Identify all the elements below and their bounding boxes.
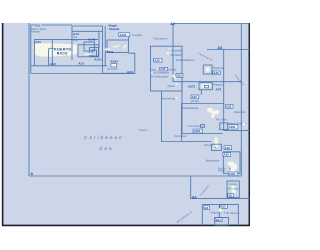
svg-text:St Lucia: St Lucia [228, 186, 239, 190]
St Lucia island [231, 185, 236, 194]
Vieques box [78, 45, 99, 57]
Guadeloupe island [207, 108, 220, 119]
Dominica island [215, 137, 219, 148]
svg-text:A23: A23 [127, 70, 133, 74]
chart box A12 left edge [48, 48, 50, 66]
B31 inner box [215, 218, 229, 226]
sea area [3, 23, 251, 225]
svg-text:Caribbean: Caribbean [84, 135, 124, 140]
boxed label A301 [228, 172, 238, 176]
A141 box [84, 42, 95, 51]
small box cluster (Culebra) [90, 48, 99, 57]
svg-text:A12: A12 [50, 62, 56, 66]
svg-text:A141: A141 [88, 38, 96, 42]
svg-text:A3: A3 [218, 46, 223, 50]
svg-text:St Croix: St Croix [107, 67, 118, 71]
chart box A24 [151, 46, 183, 91]
svg-text:A301: A301 [229, 172, 236, 176]
St Barthelemy island [177, 58, 178, 59]
boxed label A232 [119, 33, 130, 37]
Guadeloupe box A28 [182, 104, 224, 141]
leader to A25 inset [200, 90, 202, 95]
svg-text:St Martin: St Martin [171, 53, 183, 57]
Antigua box A27 [199, 83, 213, 90]
svg-text:A232: A232 [120, 33, 127, 37]
map left border [2, 23, 4, 225]
boxed label A281 [228, 125, 238, 129]
svg-text:A28: A28 [226, 105, 232, 109]
Montserrat island [175, 97, 178, 100]
Anguilla island [168, 48, 172, 50]
svg-text:Désirade: Désirade [234, 110, 246, 114]
boxed label A24 [154, 58, 162, 62]
map bottom border [2, 224, 250, 226]
Marie Galante island [242, 123, 245, 126]
svg-text:Nevis: Nevis [168, 84, 176, 88]
svg-text:A271: A271 [188, 84, 196, 88]
svg-text:France: France [218, 170, 226, 173]
boxed label B30 [220, 205, 227, 209]
svg-text:Anguilla: Anguilla [170, 49, 182, 53]
svg-text:A27: A27 [216, 88, 222, 92]
svg-text:A: A [31, 172, 34, 176]
page background [0, 0, 250, 250]
boxed label A26 [213, 71, 220, 75]
Virgin Gorda island [122, 44, 127, 49]
St Martin island [166, 52, 169, 55]
boxed label A28 [225, 104, 233, 108]
boxed label A261 [193, 129, 202, 133]
chart box A14 [72, 26, 103, 60]
Barbuda island [206, 67, 211, 72]
boxed label B3 [204, 206, 210, 210]
Virgin Islands box A23 [103, 26, 135, 73]
svg-text:Dominica: Dominica [174, 134, 186, 138]
svg-text:B3: B3 [205, 206, 209, 210]
Tortola island [112, 45, 121, 48]
svg-text:(inset): (inset) [191, 99, 199, 103]
Aves I dot [138, 129, 139, 130]
A1 lower bottom line [31, 73, 135, 75]
svg-text:Kingstown: Kingstown [210, 211, 222, 214]
St Vincent island [219, 208, 223, 212]
boxed label B31 [215, 218, 222, 222]
svg-text:Anegada: Anegada [132, 34, 142, 37]
boxed label A30 [223, 153, 231, 157]
St Lucia box B1 [227, 181, 239, 198]
St Croix box [111, 63, 117, 67]
svg-text:Passage: Passage [31, 31, 41, 34]
Tortola box [107, 40, 129, 53]
boxed label B1 [228, 193, 233, 197]
svg-text:(inset): (inset) [168, 67, 176, 71]
Saba island dot [156, 68, 158, 70]
chart box A left edge [28, 23, 30, 176]
Barbuda box [203, 65, 212, 74]
box A / A2 right edge [240, 24, 242, 177]
Sombrero I [152, 38, 153, 39]
St Vincent inner divider [218, 205, 220, 218]
svg-text:Montserrat: Montserrat [162, 97, 176, 101]
svg-text:Juan: Juan [73, 39, 79, 42]
St Thomas island [104, 48, 111, 50]
svg-text:Sea: Sea [99, 146, 113, 151]
St Thomas box right edge [104, 26, 106, 66]
St Vincent outer box [202, 205, 238, 226]
svg-text:B31: B31 [216, 218, 222, 222]
svg-text:A30: A30 [223, 153, 229, 157]
boxed label A29 [224, 146, 232, 150]
English Harbour inset box [205, 85, 209, 88]
map right border [248, 23, 250, 225]
svg-text:A4: A4 [192, 196, 197, 200]
svg-text:Barbuda: Barbuda [213, 66, 224, 70]
PR boxes bottom line [31, 65, 107, 67]
Martinique island [227, 161, 237, 172]
A232 box tail [128, 37, 130, 40]
Saintes box [220, 123, 228, 130]
svg-text:St Vincent: St Vincent [226, 211, 239, 215]
svg-text:I. des Saintes: I. des Saintes [187, 125, 202, 128]
St Eustatius island dot [151, 72, 152, 73]
svg-text:A11: A11 [35, 40, 41, 44]
svg-text:Martinique: Martinique [206, 158, 220, 162]
svg-text:A2: A2 [170, 22, 175, 26]
svg-text:A26: A26 [213, 71, 219, 75]
svg-text:B30: B30 [221, 205, 227, 209]
chart box A4 [191, 176, 250, 199]
St Kitts island [172, 75, 178, 80]
svg-text:St Barthélemy: St Barthélemy [176, 58, 195, 62]
leader dash to Puerto Rico label [49, 47, 53, 49]
boxed label A25 mid [176, 74, 183, 78]
svg-text:A29: A29 [225, 146, 231, 150]
svg-text:Antigua: Antigua [212, 82, 223, 86]
svg-text:A24: A24 [154, 58, 160, 62]
svg-text:A13: A13 [78, 62, 84, 66]
svg-text:RICO: RICO [57, 52, 68, 56]
svg-text:A261: A261 [194, 129, 201, 133]
chart box A2 [173, 24, 249, 82]
mid sea box (A29 coverage) [162, 82, 223, 142]
Antigua island [201, 83, 211, 89]
chart box A11 [34, 40, 98, 66]
svg-text:A25: A25 [177, 74, 183, 78]
boxed label A25 (inset) upper [160, 67, 168, 71]
svg-text:A231: A231 [106, 50, 114, 54]
svg-text:Pte à Pitre: Pte à Pitre [216, 118, 228, 121]
Martinique box A30 [223, 152, 240, 174]
chart box A bottom edge [29, 175, 241, 177]
svg-text:Sombrero I: Sombrero I [154, 37, 168, 41]
Roseau box [212, 144, 222, 150]
chart box A1 outline [31, 25, 72, 74]
chart box A3 [207, 50, 250, 131]
boxed label A25 (inset) lower [191, 95, 199, 99]
svg-text:Islands: Islands [109, 27, 120, 31]
Vieques island [84, 53, 93, 55]
svg-text:A131: A131 [94, 58, 102, 62]
svg-text:A281: A281 [229, 125, 236, 129]
svg-text:St Christopher: St Christopher [150, 74, 170, 78]
svg-text:Aves I: Aves I [139, 128, 148, 132]
St Vincent town dot [223, 211, 226, 214]
svg-text:B1: B1 [229, 194, 233, 198]
svg-text:A234: A234 [110, 60, 118, 64]
Puerto Rico island [33, 43, 77, 57]
svg-text:Guadeloupe: Guadeloupe [183, 106, 199, 110]
Nevis island [175, 83, 177, 85]
Saintes tiny box [201, 125, 205, 128]
